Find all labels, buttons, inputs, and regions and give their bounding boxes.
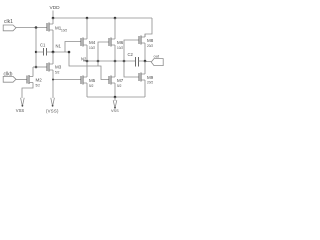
wire N1 branch down xyxy=(69,52,98,66)
node dot N2-M4 xyxy=(86,60,89,63)
wire M9 gate from N2 xyxy=(124,61,139,77)
label VSS xyxy=(111,109,119,113)
svg-text:(VSS): (VSS) xyxy=(46,109,59,114)
svg-text:5/2: 5/2 xyxy=(117,84,122,88)
svg-text:10/2: 10/2 xyxy=(117,46,123,50)
port out xyxy=(154,54,160,59)
svg-text:20/2: 20/2 xyxy=(147,81,153,85)
svg-text:M7: M7 xyxy=(117,78,124,83)
svg-text:5/2: 5/2 xyxy=(89,84,94,88)
node dot M8 drain xyxy=(144,60,147,63)
wire ground stub xyxy=(114,97,116,101)
wire clk vertical xyxy=(35,28,37,68)
wire clk to M3 gate xyxy=(33,66,47,68)
transistor M9 xyxy=(139,73,141,82)
svg-text:10/2: 10/2 xyxy=(89,46,95,50)
node dot ground xyxy=(114,96,117,99)
svg-text:M8: M8 xyxy=(147,38,154,43)
svg-text:VSS: VSS xyxy=(111,109,119,113)
node dot VDD-M1 xyxy=(52,17,55,20)
wire N2 xyxy=(83,60,136,62)
node dot N1 branch xyxy=(68,51,71,54)
wire bottom rail xyxy=(87,96,145,98)
node dot clk-M3gate xyxy=(35,66,38,69)
node VDD label xyxy=(50,5,61,11)
node dot VDD-M6 xyxy=(114,17,117,20)
label VSS xyxy=(16,108,25,113)
label (VSS) xyxy=(46,109,59,114)
svg-text:out: out xyxy=(154,54,160,59)
svg-text:VDD: VDD xyxy=(50,5,61,11)
transistor M6 xyxy=(109,38,111,47)
transistor M1 xyxy=(47,23,49,32)
transistor M7 xyxy=(109,76,111,85)
capacitor C2 xyxy=(128,52,134,57)
svg-text:20/2: 20/2 xyxy=(147,44,153,48)
svg-text:M9: M9 xyxy=(147,75,154,80)
capacitor C1 xyxy=(40,43,46,48)
transistor M8 xyxy=(139,36,141,45)
ground VSS xyxy=(113,100,117,108)
svg-text:clk1: clk1 xyxy=(4,19,13,25)
svg-text:5/2: 5/2 xyxy=(55,71,60,75)
wire clkb to M2 gate xyxy=(16,79,27,81)
wire VDD stub xyxy=(52,11,54,19)
node dot clk branch xyxy=(35,26,38,29)
svg-text:M2: M2 xyxy=(36,78,43,83)
ground M3 xyxy=(51,98,55,107)
svg-text:N1: N1 xyxy=(56,44,62,49)
node N1 label xyxy=(56,44,62,49)
node dot clk-C1 xyxy=(35,51,37,53)
port clk input xyxy=(4,19,13,25)
wire VDD rail xyxy=(53,17,152,19)
wire VDD rail corner to M8 xyxy=(145,18,152,37)
node dot N2-M6M7 xyxy=(114,60,117,63)
svg-text:M6: M6 xyxy=(117,40,124,45)
wire M6 gate from N2 xyxy=(98,42,109,61)
svg-text:10/2: 10/2 xyxy=(61,29,67,33)
svg-text:M4: M4 xyxy=(89,40,96,45)
transistor M4 xyxy=(81,38,83,47)
wire N1 xyxy=(36,51,69,53)
node dot N2-M8gate xyxy=(123,60,126,63)
node dot M5 gate tap xyxy=(52,79,54,81)
transistor M5 xyxy=(81,76,83,85)
svg-text:VSS: VSS xyxy=(16,108,25,113)
wire N1 to M4 gate xyxy=(65,42,81,53)
wire M7 gate from N2 xyxy=(98,61,109,80)
node dot N1 xyxy=(52,51,55,54)
svg-text:5/2: 5/2 xyxy=(36,84,41,88)
node dot N2-M6gate xyxy=(97,60,100,63)
svg-text:C1: C1 xyxy=(40,43,46,48)
svg-text:C2: C2 xyxy=(128,52,134,57)
transistor M2 xyxy=(27,75,29,84)
ground M2 xyxy=(21,98,25,107)
transistor M3 xyxy=(47,63,49,72)
wire M5 gate from M3 source xyxy=(53,79,81,81)
port clkb input xyxy=(4,72,13,78)
svg-text:M5: M5 xyxy=(89,78,96,83)
wire M8 gate from N2 xyxy=(124,40,139,61)
svg-text:M3: M3 xyxy=(55,65,62,70)
wire clk to M1 gate xyxy=(16,27,47,29)
node dot VDD-M4 xyxy=(86,17,89,20)
node N2 label xyxy=(81,57,87,62)
wire C2 to out xyxy=(139,60,152,63)
